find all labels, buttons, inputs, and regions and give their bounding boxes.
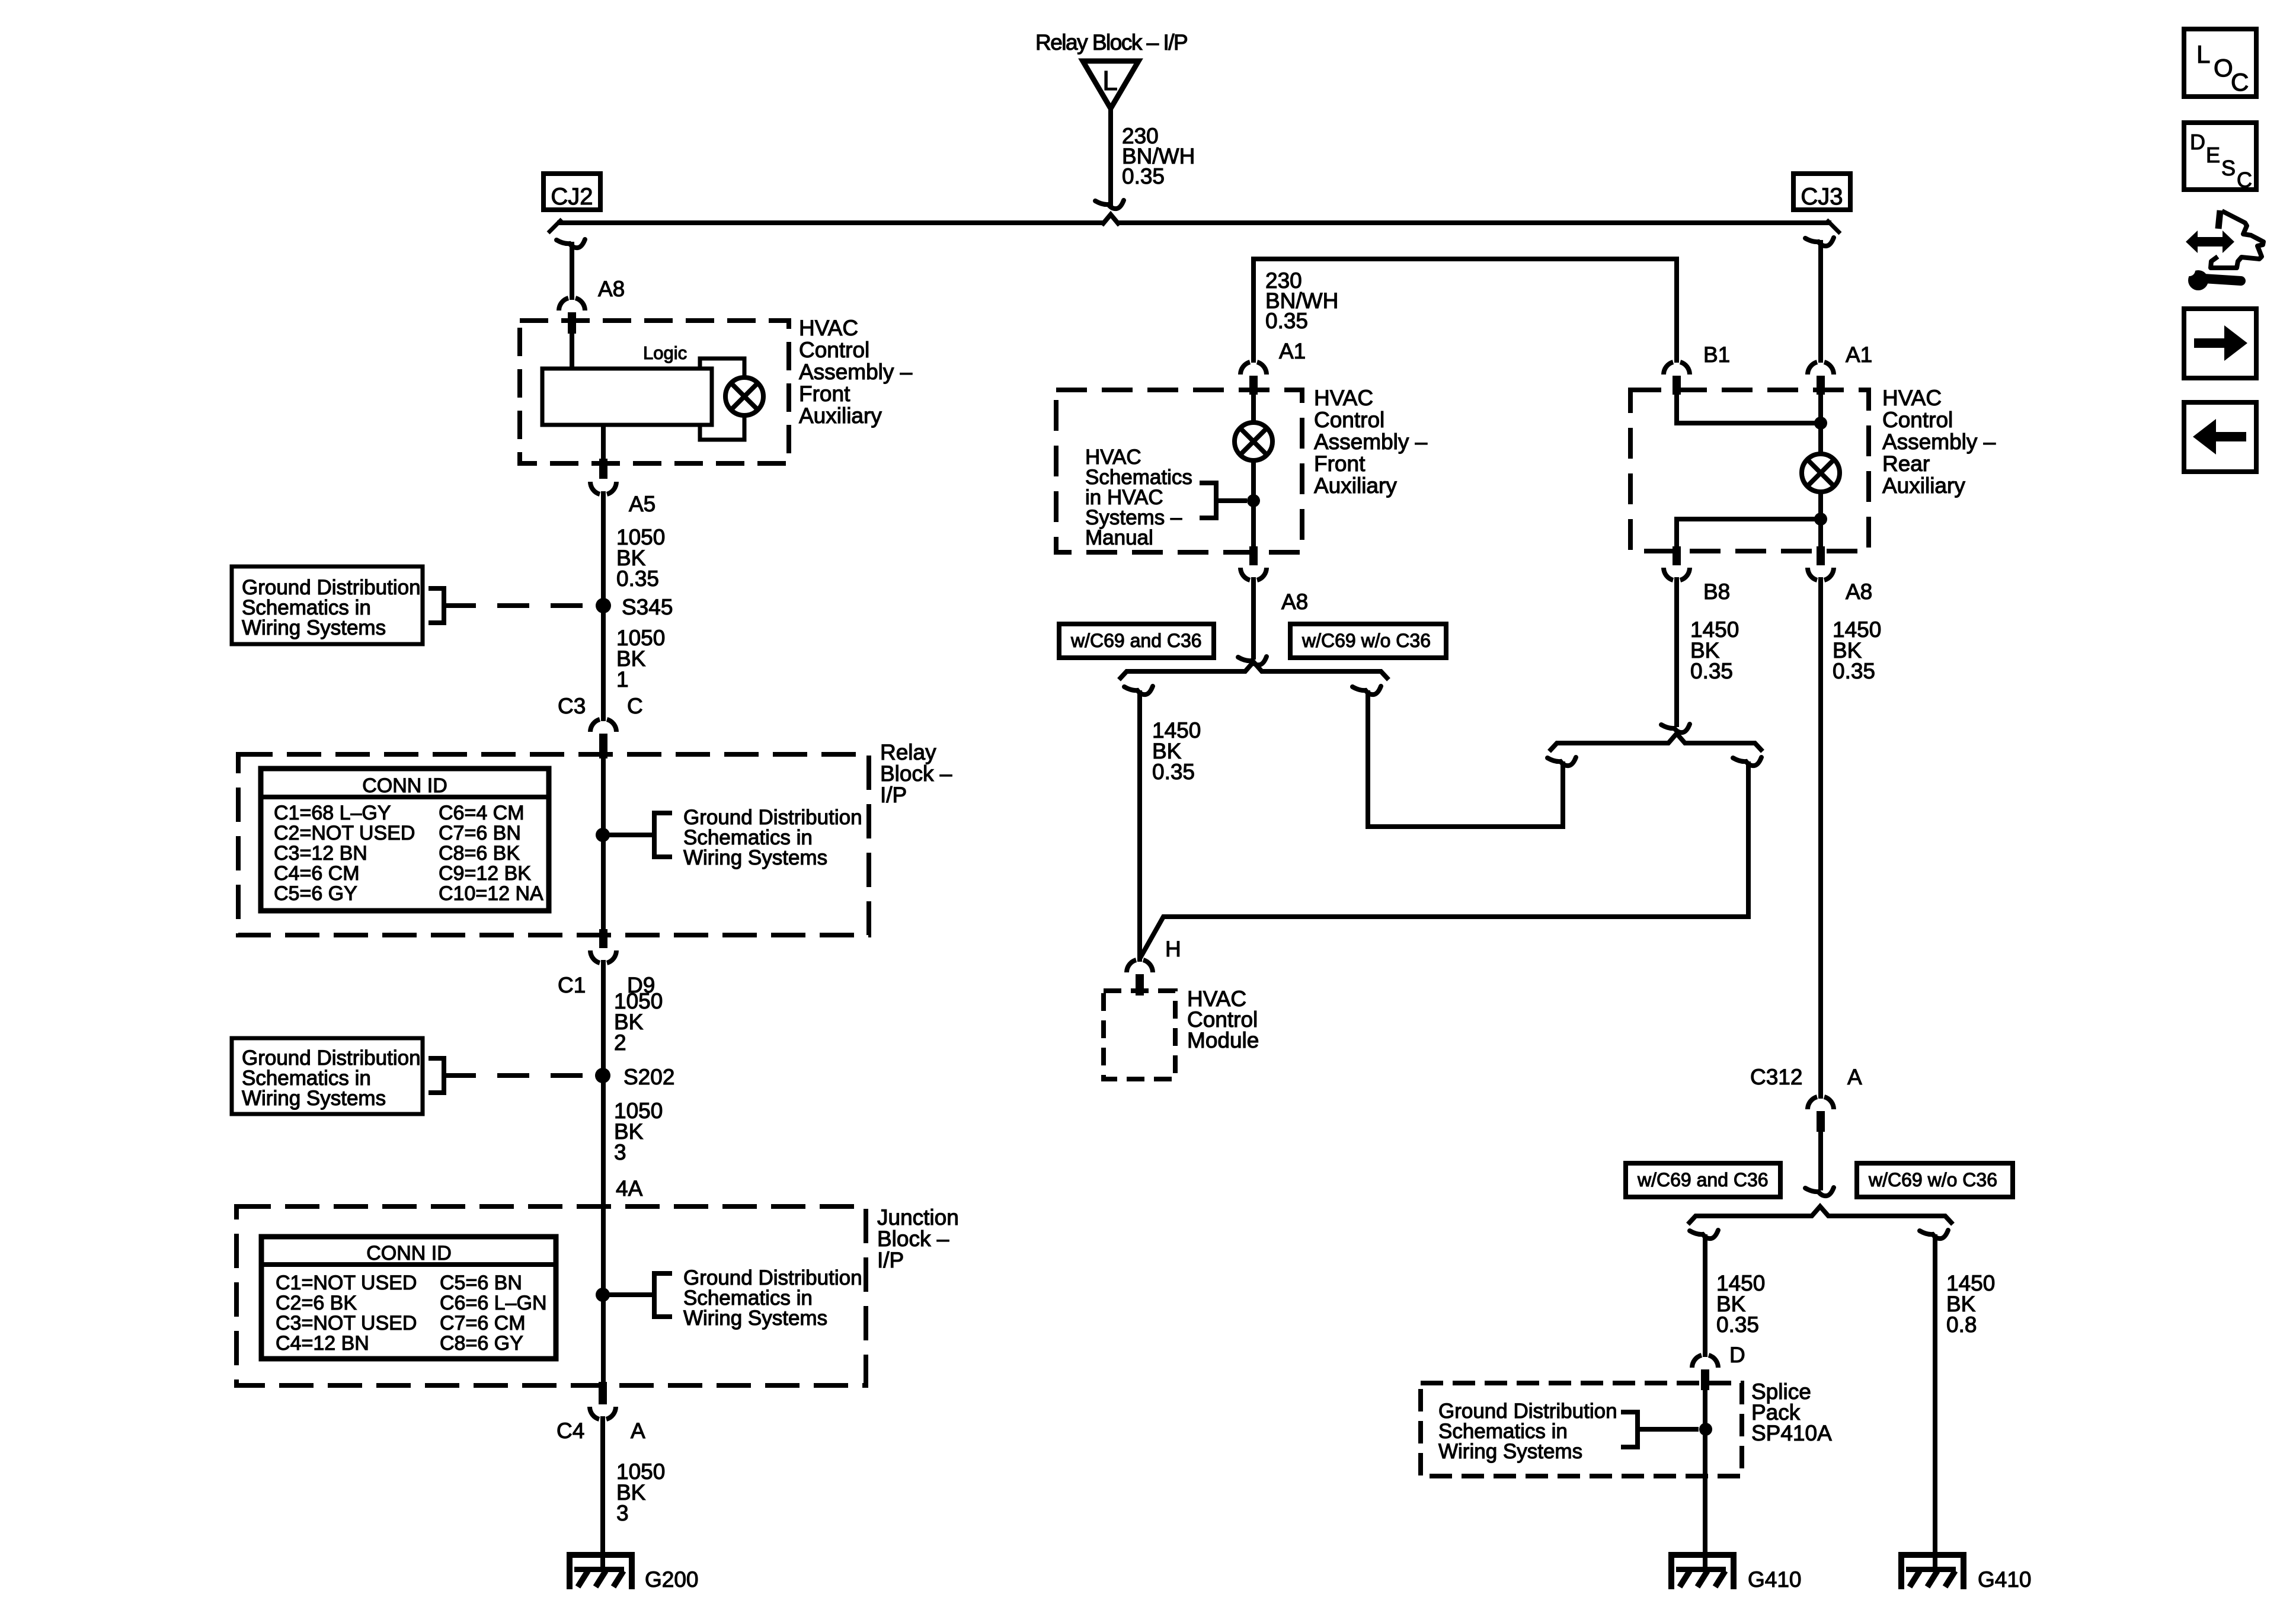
wire A8 mid to brace xyxy=(1251,577,1256,660)
connector arc C312 xyxy=(1808,1097,1834,1109)
svg-text:A: A xyxy=(631,1419,645,1443)
option box w/C69 w/o C36 bottom xyxy=(1857,1163,2013,1197)
indicator lamp front aux logic xyxy=(725,377,763,415)
wire rear right branch to H xyxy=(1140,761,1748,959)
svg-text:Front: Front xyxy=(799,382,850,406)
svg-text:Assembly –: Assembly – xyxy=(1882,430,1996,454)
svg-text:w/C69 w/o C36: w/C69 w/o C36 xyxy=(1868,1169,1997,1190)
wire C312 down xyxy=(1818,1132,1823,1190)
wire A5 to S345 xyxy=(601,491,606,606)
svg-text:Wiring Systems: Wiring Systems xyxy=(242,1087,386,1110)
ground distribution schematics reference box 2 xyxy=(232,1038,423,1114)
wire bottom right branch to G410 xyxy=(1933,1234,1937,1570)
connector arc D xyxy=(1692,1355,1718,1368)
wire left branch to H xyxy=(1137,690,1142,962)
HVAC control assembly rear auxiliary dashed box xyxy=(1630,390,1869,551)
bus wire CJ2 to CJ3 xyxy=(557,220,1831,225)
svg-text:Wiring Systems: Wiring Systems xyxy=(683,1307,827,1330)
junction dot rear aux bottom xyxy=(1814,513,1827,526)
svg-text:G410: G410 xyxy=(1978,1567,2032,1592)
bracket HVAC schematics reference xyxy=(1200,483,1216,518)
svg-text:C10=12 NA: C10=12 NA xyxy=(439,882,543,905)
wire A1 rear to lamp xyxy=(1818,393,1823,454)
wire lamp to junction rear xyxy=(1818,492,1823,549)
svg-text:C5=6 GY: C5=6 GY xyxy=(274,882,357,905)
connector arc A8 rear xyxy=(1808,568,1834,580)
svg-text:H: H xyxy=(1165,937,1181,961)
svg-text:C8=6 BK: C8=6 BK xyxy=(439,842,520,865)
svg-text:0.35: 0.35 xyxy=(1122,164,1165,188)
bracket junction block reference xyxy=(654,1273,672,1317)
splice SP410A junction xyxy=(1699,1423,1712,1436)
wire break curl rear right branch xyxy=(1733,757,1761,766)
option split brace bottom xyxy=(1688,1206,1953,1224)
nav icon double arrow xyxy=(2186,231,2234,253)
wire A1 to lamp xyxy=(1251,393,1256,424)
svg-text:C6=4 CM: C6=4 CM xyxy=(439,802,525,824)
wire break curl bottom left branch xyxy=(1690,1230,1718,1238)
svg-text:Control: Control xyxy=(1314,408,1384,432)
svg-text:B1: B1 xyxy=(1703,343,1730,367)
svg-text:C7=6 CM: C7=6 CM xyxy=(440,1312,526,1334)
svg-text:0.35: 0.35 xyxy=(616,566,659,591)
svg-text:Wiring Systems: Wiring Systems xyxy=(683,846,827,869)
connector stub A8 rear xyxy=(1817,546,1825,565)
svg-text:C3: C3 xyxy=(558,694,586,718)
svg-text:Auxiliary: Auxiliary xyxy=(1882,473,1965,498)
svg-text:Auxiliary: Auxiliary xyxy=(1314,473,1397,498)
svg-text:L: L xyxy=(1102,65,1118,96)
svg-text:w/C69 and C36: w/C69 and C36 xyxy=(1070,630,1202,651)
svg-text:C7=6 BN: C7=6 BN xyxy=(439,822,521,844)
wire A8 rear down to C312 xyxy=(1818,577,1823,1099)
wire through relay block xyxy=(601,758,606,932)
svg-text:HVAC: HVAC xyxy=(1882,386,1942,410)
relay block triangle symbol L xyxy=(1083,61,1139,108)
wire break curl above bus xyxy=(1095,200,1124,209)
ground G410 left xyxy=(1668,1552,1737,1589)
nav icon LOC box xyxy=(2184,29,2256,97)
wire break curl above bottom brace xyxy=(1805,1188,1834,1196)
leader relay junction to bracket xyxy=(603,833,654,837)
connector arc H xyxy=(1127,960,1153,972)
connector stub B1 xyxy=(1673,376,1681,395)
connector stub B8 xyxy=(1673,546,1681,565)
connector box CJ3 xyxy=(1793,174,1850,210)
connector arc A8 mid xyxy=(1240,568,1267,580)
svg-text:CONN ID: CONN ID xyxy=(362,774,447,797)
wire logic rect bottom to A5 xyxy=(601,425,606,462)
option box w/C69 and C36 bottom xyxy=(1626,1163,1780,1197)
dashed leader to S202 xyxy=(444,1073,593,1078)
CONN ID table relay block xyxy=(261,769,549,911)
wire CJ2 drop to A8 xyxy=(570,242,574,300)
svg-text:Relay: Relay xyxy=(880,740,936,764)
svg-text:Module: Module xyxy=(1187,1028,1259,1052)
wire S345 to C3 xyxy=(601,606,606,721)
svg-text:A5: A5 xyxy=(629,492,655,516)
ground G410 right xyxy=(1898,1552,1966,1589)
nav icon back arrow box xyxy=(2184,402,2256,472)
svg-text:Front: Front xyxy=(1314,452,1366,476)
svg-text:L: L xyxy=(2196,40,2210,68)
connector stub A8 front aux xyxy=(568,312,576,334)
svg-text:A: A xyxy=(1847,1065,1862,1089)
svg-text:O: O xyxy=(2214,54,2233,82)
connector stub C312 xyxy=(1817,1111,1825,1132)
svg-text:0.35: 0.35 xyxy=(1690,659,1733,683)
svg-text:B8: B8 xyxy=(1703,580,1730,604)
svg-text:Block –: Block – xyxy=(880,761,952,786)
wire A8 stub to logic rect xyxy=(570,332,574,370)
wire B1 internal xyxy=(1677,393,1821,423)
splice S345 xyxy=(596,598,611,613)
junction block IP dashed box xyxy=(236,1206,866,1385)
svg-text:CONN ID: CONN ID xyxy=(366,1242,452,1265)
CONN ID table junction block xyxy=(261,1237,556,1359)
wire break curl left branch xyxy=(1124,686,1153,694)
wire lamp to A8 mid xyxy=(1251,460,1256,549)
bus left end slash xyxy=(548,219,562,233)
svg-text:3: 3 xyxy=(616,1501,629,1525)
svg-text:S202: S202 xyxy=(623,1065,674,1089)
svg-text:A8: A8 xyxy=(598,277,625,301)
svg-text:0.8: 0.8 xyxy=(1946,1313,1977,1337)
leader front aux junction xyxy=(1216,498,1247,503)
wire CJ3 drop to A1 rear xyxy=(1818,240,1823,363)
bracket splice pack reference xyxy=(1621,1412,1638,1447)
svg-text:S: S xyxy=(2221,156,2236,180)
svg-text:2: 2 xyxy=(614,1030,626,1055)
ground G200 xyxy=(567,1552,635,1589)
svg-text:C6=6 L–GN: C6=6 L–GN xyxy=(440,1292,547,1314)
svg-text:G410: G410 xyxy=(1748,1567,1802,1592)
svg-text:Control: Control xyxy=(1882,408,1953,432)
connector arc B8 xyxy=(1664,568,1690,580)
junction block internal junction xyxy=(596,1288,610,1302)
connector arc A5 xyxy=(590,482,616,494)
svg-text:0.35: 0.35 xyxy=(1152,760,1195,784)
bus chevron bump at relay block tap xyxy=(1102,215,1120,225)
option split brace mid xyxy=(1119,662,1389,680)
svg-text:C9=12 BK: C9=12 BK xyxy=(439,862,531,885)
wire C1/D9 to junction block xyxy=(601,960,606,1382)
connector arc C4/A xyxy=(590,1407,616,1419)
svg-text:A1: A1 xyxy=(1279,339,1306,363)
svg-text:CJ2: CJ2 xyxy=(551,184,593,210)
wire B8 down xyxy=(1674,577,1679,727)
wire break curl rear left branch xyxy=(1547,757,1576,766)
svg-text:C: C xyxy=(2231,68,2249,96)
nav icon DESC box xyxy=(2184,123,2256,192)
bus right end slash xyxy=(1827,220,1840,233)
connector stub C3/C xyxy=(599,734,607,758)
bracket for reference box 2 xyxy=(428,1058,444,1093)
logic loop wiring to lamp xyxy=(700,359,744,440)
dashed leader to S345 xyxy=(444,603,593,608)
bracket relay block reference xyxy=(654,813,672,857)
svg-text:Rear: Rear xyxy=(1882,452,1930,476)
svg-text:C1=68 L–GY: C1=68 L–GY xyxy=(274,802,391,824)
svg-text:C2=6 BK: C2=6 BK xyxy=(276,1292,357,1314)
connector stub A1 rear xyxy=(1817,376,1825,395)
svg-text:C: C xyxy=(2237,168,2252,192)
nav icon forward arrow box xyxy=(2184,309,2256,378)
svg-text:1: 1 xyxy=(616,667,629,692)
svg-text:Auxiliary: Auxiliary xyxy=(799,404,882,428)
wire D to G410 left xyxy=(1703,1390,1707,1570)
connector arc A8 front aux xyxy=(559,298,585,311)
leader splice junction xyxy=(1638,1427,1699,1432)
HVAC control module dashed box xyxy=(1104,991,1175,1079)
logic module rectangle xyxy=(542,369,712,425)
svg-text:HVAC: HVAC xyxy=(799,316,858,340)
splice S202 xyxy=(595,1068,610,1083)
connector arc C3/C xyxy=(590,719,616,732)
wire break curl below bus at CJ2 xyxy=(557,239,585,248)
svg-text:HVAC: HVAC xyxy=(1314,386,1373,410)
svg-text:C: C xyxy=(627,694,643,718)
wire break curl bottom right branch xyxy=(1920,1230,1948,1238)
svg-text:0.35: 0.35 xyxy=(1833,659,1875,683)
svg-text:Wiring Systems: Wiring Systems xyxy=(242,616,386,639)
svg-text:Block –: Block – xyxy=(877,1227,949,1251)
svg-text:Wiring Systems: Wiring Systems xyxy=(1438,1440,1582,1463)
svg-text:C2=NOT USED: C2=NOT USED xyxy=(274,822,415,844)
wire break curl above middle brace xyxy=(1238,657,1267,665)
svg-text:CJ3: CJ3 xyxy=(1801,184,1843,210)
connector stub A5 xyxy=(599,459,607,479)
leader junction block to bracket xyxy=(603,1292,654,1297)
wire from relay block triangle xyxy=(1108,108,1113,206)
junction dot rear aux top xyxy=(1814,417,1827,430)
svg-text:E: E xyxy=(2206,143,2220,167)
svg-text:SP410A: SP410A xyxy=(1751,1421,1832,1445)
svg-text:C4=6 CM: C4=6 CM xyxy=(274,862,360,885)
wire break curl right branch xyxy=(1352,686,1381,694)
option box w/C69 w/o C36 mid xyxy=(1290,624,1446,658)
svg-text:4A: 4A xyxy=(616,1176,643,1201)
svg-text:w/C69 and C36: w/C69 and C36 xyxy=(1637,1169,1769,1190)
svg-text:Junction: Junction xyxy=(877,1205,959,1230)
svg-text:Logic: Logic xyxy=(643,343,687,363)
wire elbow A1 front aux to B1 rear aux xyxy=(1253,259,1677,363)
svg-text:w/C69 w/o C36: w/C69 w/o C36 xyxy=(1302,630,1431,651)
svg-text:C8=6 GY: C8=6 GY xyxy=(440,1332,523,1355)
connector stub H xyxy=(1136,974,1144,996)
svg-text:A8: A8 xyxy=(1281,590,1308,614)
svg-text:D: D xyxy=(2190,130,2205,154)
svg-text:G200: G200 xyxy=(645,1567,699,1592)
svg-text:C4: C4 xyxy=(557,1419,584,1443)
svg-text:C1=NOT USED: C1=NOT USED xyxy=(276,1272,417,1294)
svg-text:Assembly –: Assembly – xyxy=(799,360,913,384)
svg-text:C1: C1 xyxy=(558,973,586,997)
nav icon wrench xyxy=(2183,264,2241,290)
svg-text:I/P: I/P xyxy=(880,783,907,807)
connector box CJ2 xyxy=(543,174,600,210)
svg-text:C312: C312 xyxy=(1750,1065,1802,1089)
connector stub A8 mid xyxy=(1249,546,1258,565)
wire break curl B8 end xyxy=(1661,724,1690,732)
svg-text:A8: A8 xyxy=(1846,580,1872,604)
svg-text:Manual: Manual xyxy=(1085,526,1153,549)
svg-text:C3=NOT USED: C3=NOT USED xyxy=(276,1312,417,1334)
wire C4/A to G200 xyxy=(600,1416,605,1570)
HVAC control assembly front auxiliary dashed box mid xyxy=(1056,390,1302,552)
connector stub C4/A xyxy=(599,1382,607,1404)
bracket for reference box 1 xyxy=(428,588,444,623)
svg-text:A1: A1 xyxy=(1846,343,1872,367)
connector stub A1 front aux xyxy=(1249,376,1258,395)
svg-text:Control: Control xyxy=(799,338,869,362)
svg-text:I/P: I/P xyxy=(877,1248,904,1272)
indicator lamp rear aux xyxy=(1802,454,1840,492)
wire right branch U to rear aux branch xyxy=(1368,690,1563,827)
option split brace rear xyxy=(1549,734,1763,751)
svg-text:C5=6 BN: C5=6 BN xyxy=(440,1272,522,1294)
HVAC control assembly front auxiliary dashed box xyxy=(520,321,789,463)
svg-text:0.35: 0.35 xyxy=(1716,1313,1759,1337)
wire internal to B8 xyxy=(1677,519,1821,548)
svg-text:Relay Block – I/P: Relay Block – I/P xyxy=(1035,30,1187,55)
option box w/C69 and C36 mid xyxy=(1059,624,1214,658)
wire break curl below bus at CJ3 xyxy=(1805,238,1834,246)
svg-text:3: 3 xyxy=(614,1140,626,1164)
connector stub D xyxy=(1701,1369,1709,1390)
nav icon vehicle outline xyxy=(2211,211,2263,268)
connector arc C1/D9 xyxy=(590,950,616,963)
relay block IP dashed box xyxy=(238,754,869,935)
svg-text:S345: S345 xyxy=(622,595,673,619)
connector arc A1 front aux xyxy=(1240,362,1267,375)
ground distribution schematics reference box 1 xyxy=(232,566,423,644)
indicator lamp front aux xyxy=(1235,422,1272,460)
connector arc B1 xyxy=(1664,362,1690,375)
svg-text:C3=12 BN: C3=12 BN xyxy=(274,842,367,865)
splice pack dashed box xyxy=(1421,1383,1742,1476)
wire bottom left branch to D xyxy=(1703,1234,1707,1357)
junction dot front aux xyxy=(1247,494,1260,507)
connector stub C1/D9 xyxy=(599,929,607,948)
connector arc A1 rear xyxy=(1808,362,1834,375)
svg-text:D: D xyxy=(1729,1343,1745,1367)
svg-text:Assembly –: Assembly – xyxy=(1314,430,1428,454)
svg-text:0.35: 0.35 xyxy=(1265,309,1308,333)
svg-text:C4=12 BN: C4=12 BN xyxy=(276,1332,369,1355)
relay block internal junction xyxy=(596,828,610,842)
